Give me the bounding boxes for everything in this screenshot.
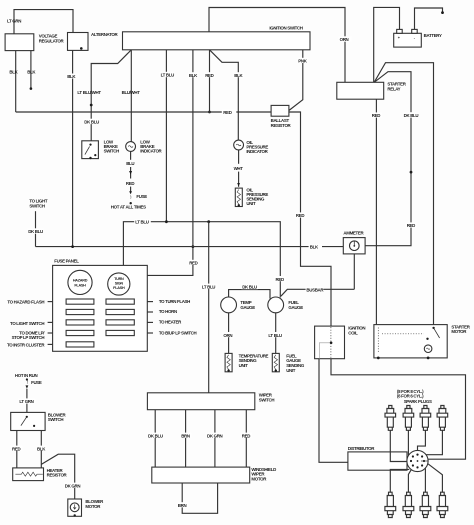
oil pressure sending unit: [235, 188, 242, 206]
stub to hazard flash: [48, 301, 53, 303]
wire plug8: [428, 464, 442, 493]
wire plug3: [418, 430, 426, 450]
label BLK alternator: [66, 74, 79, 80]
stub to turn flash: [147, 301, 153, 303]
svg-text:TO LIGHT SWITCH: TO LIGHT SWITCH: [10, 321, 44, 326]
svg-text:TO B/UP LP SWITCH: TO B/UP LP SWITCH: [159, 330, 197, 335]
wire plug7: [424, 468, 426, 492]
svg-text:TO HORN: TO HORN: [159, 309, 177, 314]
label BLK bus: [309, 244, 322, 250]
hazard flasher: [68, 270, 92, 294]
label RED ignition: [204, 72, 215, 78]
label LT BLU ignition: [160, 72, 175, 78]
svg-text:DK GRN: DK GRN: [65, 483, 81, 488]
alternator terminal dot: [80, 47, 83, 50]
wire red bus regulator to ballast: [16, 111, 271, 113]
dot battery ground end: [441, 11, 444, 14]
label PNK: [297, 58, 308, 64]
distributor terminals: [410, 454, 425, 469]
windshield wiper motor box: [152, 467, 250, 483]
label BRN: [180, 433, 191, 439]
wire wiper switch feed LT BLU: [208, 222, 210, 393]
junction dot RED at red bus: [208, 111, 211, 114]
svg-text:TO TURN FLASH: TO TURN FLASH: [159, 299, 190, 304]
svg-text:BLU: BLU: [126, 161, 134, 166]
wire ignition to LT BLU/WHT (diagonal): [91, 50, 131, 141]
wire wiper BRN: [185, 410, 187, 467]
svg-text:AMMETER: AMMETER: [343, 230, 364, 235]
svg-text:SWITCH: SWITCH: [259, 397, 275, 402]
label RED blower: [11, 446, 22, 452]
label ORN: [223, 332, 235, 338]
temp gauge: [221, 297, 237, 313]
svg-text:TO INSTR CLUSTER: TO INSTR CLUSTER: [7, 342, 45, 347]
wire ignition BLK down to bus and fuse panel: [147, 50, 193, 276]
svg-text:DISTRIBUTOR: DISTRIBUTOR: [348, 446, 376, 451]
svg-text:RESISTOR: RESISTOR: [47, 473, 68, 478]
svg-text:FUSE PANEL: FUSE PANEL: [54, 258, 79, 263]
wire ignition BLU/WHT to low brake indicator: [130, 50, 132, 142]
label DK BLU jumper: [241, 284, 257, 290]
wire ignition switch top to starter relay ORN: [209, 8, 345, 83]
svg-text:MOTOR: MOTOR: [451, 329, 467, 334]
svg-text:RESISTOR: RESISTOR: [271, 123, 292, 128]
svg-text:RED: RED: [407, 223, 415, 228]
label DK GRN: [206, 433, 223, 439]
wire plug4: [426, 430, 442, 454]
svg-text:RED: RED: [372, 113, 380, 118]
svg-text:BLK: BLK: [67, 74, 76, 79]
svg-text:RED: RED: [276, 277, 284, 282]
fuse L5: [66, 342, 94, 347]
label DK GRN blower: [64, 483, 81, 489]
svg-text:UNIT: UNIT: [239, 363, 249, 368]
spark plug 2: [403, 406, 414, 431]
wire plug6: [408, 470, 411, 493]
label LT BLU fuel sender: [268, 332, 285, 338]
wire busbar: [281, 289, 354, 296]
wire wiper RED: [245, 410, 247, 467]
wire indicator BLU: [130, 151, 132, 159]
stub to dome lp: [48, 332, 53, 334]
label BLK oil branch: [233, 72, 244, 78]
svg-text:GAUGE: GAUGE: [240, 305, 255, 310]
label DK BLU: [84, 119, 100, 125]
spark plug 6: [403, 492, 414, 517]
battery left terminal: [397, 29, 403, 33]
svg-text:DK BLU: DK BLU: [148, 433, 163, 438]
dot hot at all times: [130, 202, 132, 204]
spark plug 1: [385, 406, 396, 431]
wire to light switch DK BLU: [35, 211, 37, 246]
label LT BLU bus: [134, 219, 151, 225]
svg-text:GAUGE: GAUGE: [288, 305, 303, 310]
wire oil WHT: [238, 150, 240, 164]
svg-text:ORN: ORN: [223, 333, 232, 338]
svg-text:RED: RED: [126, 181, 134, 186]
svg-text:FLASH: FLASH: [113, 286, 125, 290]
label BLK ignition: [188, 72, 199, 78]
wire temp gauge ORN: [228, 313, 230, 354]
ignition coil box: [315, 326, 345, 359]
junction dot BLK at bus: [192, 245, 195, 248]
label BUSBAR: [306, 287, 325, 293]
dot blower motor ground: [74, 514, 76, 516]
label RED wiper: [241, 433, 252, 439]
heater resistor box: [13, 468, 44, 481]
spark plug 7: [420, 492, 431, 517]
wire coil to distributor rotor: [331, 359, 466, 460]
wire rotor stub: [421, 460, 428, 462]
wire DK BLU temp-fuel jumper: [229, 290, 270, 299]
svg-text:BLK: BLK: [310, 245, 319, 250]
svg-text:RED: RED: [242, 433, 250, 438]
svg-text:IGNITION SWITCH: IGNITION SWITCH: [269, 25, 302, 30]
svg-text:ORN: ORN: [340, 37, 349, 42]
wire wiper DK BLU: [154, 410, 156, 467]
fuse L1: [66, 299, 94, 304]
stub to light switch: [48, 321, 53, 323]
wire battery positive to starter relay: [374, 7, 400, 82]
svg-text:HOT IN RUN: HOT IN RUN: [15, 373, 38, 378]
wire ammeter to busbar: [353, 254, 355, 289]
blower motor symbol: [70, 503, 79, 512]
starter motor internals: [382, 333, 424, 335]
svg-text:DK GRN: DK GRN: [207, 433, 223, 438]
svg-text:UNIT: UNIT: [246, 201, 256, 206]
battery right terminal: [412, 29, 418, 33]
wire plug5: [390, 469, 409, 492]
junction dot alternator at black bus: [71, 245, 74, 248]
svg-text:BRN: BRN: [178, 503, 187, 508]
dot oil sender ground: [238, 204, 240, 206]
stub to b/up lp switch: [147, 332, 153, 334]
wire blower RED: [16, 431, 18, 468]
turn signal flasher: [108, 273, 130, 295]
svg-text:SWITCH: SWITCH: [48, 417, 64, 422]
svg-text:BLK: BLK: [37, 446, 46, 451]
label RED fuse feed: [188, 260, 199, 266]
ignition coil internals: [330, 327, 332, 358]
svg-text:DK BLU: DK BLU: [28, 229, 43, 234]
svg-text:COIL: COIL: [348, 330, 358, 335]
svg-text:FUSE: FUSE: [136, 194, 147, 199]
wiper switch box: [147, 393, 254, 410]
label DK BLU wiper: [147, 433, 163, 439]
fuel gauge sending unit: [272, 353, 279, 371]
svg-text:ALTERNATOR: ALTERNATOR: [91, 32, 118, 37]
heater resistor element: [15, 472, 42, 476]
wire ignition LT BLU to bus: [165, 50, 167, 222]
blower motor box: [68, 499, 82, 516]
battery box: [394, 33, 422, 47]
svg-text:LT GRN: LT GRN: [19, 399, 33, 404]
wire BLU to RED with connector arrow: [130, 167, 132, 179]
svg-text:HOT AT ALL TIMES: HOT AT ALL TIMES: [111, 205, 146, 210]
ignition switch box: [123, 32, 311, 50]
svg-text:LT BLU: LT BLU: [161, 73, 175, 78]
ammeter dial: [350, 241, 360, 251]
wire plug1: [390, 430, 407, 461]
fuse symbol hot-at-all-times: [130, 196, 131, 199]
fuse R3: [106, 320, 134, 325]
wire ignition RED to red bus: [209, 50, 211, 112]
fuse L4: [66, 330, 94, 335]
svg-text:DK BLU: DK BLU: [242, 285, 257, 290]
oil pressure indicator lamp: [234, 140, 244, 150]
wire ignition PNK to ballast: [289, 50, 303, 111]
wire coil to distributor cap: [319, 359, 348, 463]
wire relay RED to starter motor: [375, 99, 377, 324]
wire regulator BLK left: [15, 51, 17, 112]
wire ignition BLK diagonal to oil indicator: [210, 50, 239, 140]
svg-text:RED: RED: [223, 110, 231, 115]
svg-text:REGULATOR: REGULATOR: [39, 39, 65, 44]
svg-text:WHT: WHT: [234, 166, 244, 171]
svg-text:RED: RED: [296, 213, 304, 218]
svg-text:DK BLU: DK BLU: [404, 113, 419, 118]
wire black bus: [36, 246, 344, 248]
svg-text:LT BLU: LT BLU: [268, 333, 282, 338]
svg-text:BLK: BLK: [9, 70, 18, 75]
temperature sending unit: [225, 353, 232, 371]
fuse R1: [106, 299, 134, 304]
label RED bus: [222, 110, 237, 116]
svg-text:TO HEATER: TO HEATER: [159, 319, 182, 324]
svg-text:BLK: BLK: [234, 73, 243, 78]
label ORN: [339, 36, 352, 42]
svg-text:TO HAZARD FLASH: TO HAZARD FLASH: [7, 300, 44, 305]
wire plug2: [407, 430, 409, 455]
svg-text:INDICATOR: INDICATOR: [246, 149, 268, 154]
fuel gauge: [268, 297, 284, 313]
svg-text:RED: RED: [189, 261, 197, 266]
dot temp sender ground: [227, 369, 229, 371]
label RED ammeter wire: [406, 222, 417, 228]
fuse symbol blower feed: [26, 378, 28, 380]
voltage regulator box: [5, 34, 34, 51]
svg-text:LT BLU/WHT: LT BLU/WHT: [77, 90, 101, 95]
label RED fuel gauge feed: [275, 276, 286, 282]
svg-text:RED: RED: [12, 446, 20, 451]
low brake switch contacts: [89, 144, 91, 146]
label LT BLU wiper: [201, 284, 218, 290]
distributor body box: [348, 452, 407, 470]
wire ballast RED to ignition coil: [289, 112, 331, 326]
wire regulator BLK right: [30, 51, 32, 88]
wire wiper DK GRN: [214, 410, 216, 467]
spark plug 4: [437, 406, 448, 431]
wire LT BLU bus: [123, 222, 280, 298]
label LT GRN blower: [19, 398, 36, 404]
svg-text:FUSE: FUSE: [31, 380, 42, 385]
svg-text:LT BLU: LT BLU: [135, 220, 149, 225]
svg-text:INDICATOR: INDICATOR: [140, 149, 162, 154]
svg-text:LT BLU: LT BLU: [202, 284, 216, 289]
svg-text:LT GRN: LT GRN: [7, 19, 21, 24]
svg-text:MOTOR: MOTOR: [85, 504, 101, 509]
splice dot LT BLU/WHT: [90, 104, 93, 107]
blower switch contacts: [26, 416, 28, 418]
distributor cap: [407, 450, 428, 471]
svg-text:SWITCH: SWITCH: [29, 203, 45, 208]
label DK BLU light switch: [27, 228, 43, 234]
label RED relay: [371, 112, 382, 118]
label BLK blower: [36, 446, 47, 452]
wire relay to ammeter (lower diagonal): [365, 72, 411, 246]
svg-text:BUSBAR: BUSBAR: [306, 287, 324, 292]
starter relay box: [337, 82, 384, 99]
wire LT GRN to blower switch: [26, 389, 28, 413]
fuse panel box: [53, 265, 148, 351]
svg-text:PNK: PNK: [298, 59, 307, 64]
stub to heater: [147, 321, 153, 323]
ammeter box: [343, 238, 365, 254]
spark plug 8: [437, 492, 448, 517]
fuse R4: [106, 330, 134, 335]
wire relay to starter motor switch (upper diagonal): [374, 63, 433, 328]
low brake switch box: [82, 141, 99, 159]
spark plug 5: [385, 492, 396, 517]
svg-text:BLK: BLK: [189, 73, 198, 78]
alternator box: [68, 33, 89, 51]
splice dot relay-ammeter wire: [410, 171, 413, 174]
stub to instr cluster: [48, 343, 53, 345]
wire DK GRN to blower motor: [41, 454, 74, 499]
svg-text:SIGN: SIGN: [115, 282, 124, 286]
fuse L3: [66, 320, 94, 325]
junction dot LT BLU from ignition: [165, 220, 168, 223]
label BRN loop: [177, 502, 188, 508]
svg-text:BLK: BLK: [27, 70, 36, 75]
svg-text:BATTERY: BATTERY: [424, 33, 442, 38]
splice dot regulator right wire: [30, 87, 33, 90]
dot fuel sender ground: [275, 369, 277, 371]
wire RED to fuse: [130, 187, 132, 192]
wire battery negative ground stub: [415, 8, 443, 29]
svg-text:MOTOR: MOTOR: [251, 476, 267, 481]
svg-text:TURN: TURN: [114, 277, 124, 281]
spark plug 3: [420, 406, 431, 431]
svg-text:FLASH: FLASH: [74, 284, 86, 288]
svg-text:BRN: BRN: [181, 433, 190, 438]
stub to horn: [147, 311, 153, 313]
starter motor box: [374, 325, 447, 358]
svg-text:STOP LP SWITCH: STOP LP SWITCH: [12, 335, 45, 340]
fuse R2: [106, 309, 134, 314]
wire WHT to sender with arrow: [238, 172, 240, 187]
low brake indicator lamp: [126, 142, 136, 152]
svg-text:BLU/WHT: BLU/WHT: [122, 90, 141, 95]
blower switch box: [11, 412, 45, 430]
junction dot wiper feed: [207, 220, 210, 223]
svg-text:SWITCH: SWITCH: [104, 149, 120, 154]
wire blower BLK: [40, 431, 42, 468]
svg-text:RED: RED: [205, 73, 213, 78]
ballast resistor box: [271, 105, 289, 116]
wire top loop regulator-alternator: [14, 10, 73, 34]
wire fuel gauge LT BLU: [275, 313, 277, 354]
wire wiper motor BRN ground loop: [182, 483, 217, 513]
svg-text:HAZARD: HAZARD: [73, 279, 88, 283]
label DK BLU relay: [403, 112, 419, 118]
svg-text:UNIT: UNIT: [286, 368, 296, 373]
label RED ballast-coil: [295, 212, 306, 218]
wire alternator BLK down to bus: [72, 50, 74, 246]
fuse L2: [66, 309, 94, 314]
svg-text:DK BLU: DK BLU: [84, 119, 99, 124]
svg-text:SPARK PLUGS: SPARK PLUGS: [404, 399, 432, 404]
svg-text:RELAY: RELAY: [387, 86, 400, 91]
